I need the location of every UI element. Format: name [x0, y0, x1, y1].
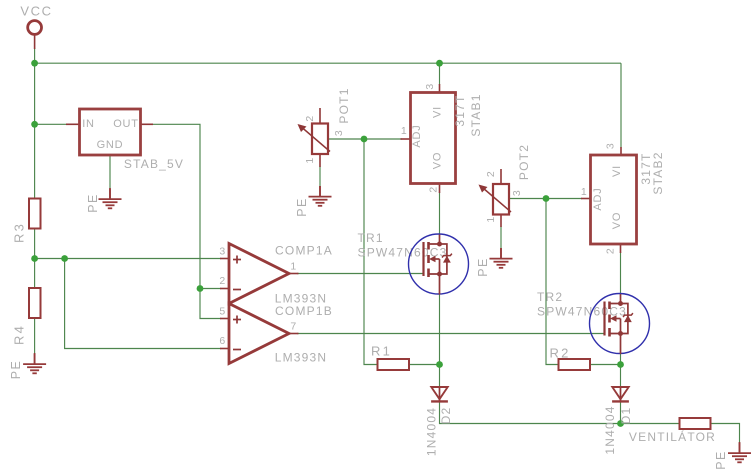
wire TR2 source to node	[620, 353, 622, 365]
regulator STAB2	[581, 143, 665, 254]
svg-text:ADJ: ADJ	[411, 124, 423, 147]
wire divider to pin 3	[35, 258, 221, 260]
wire POT1 node down to R1	[364, 139, 378, 365]
wire POT2 pin1 to ground	[500, 226, 502, 249]
svg-text:1N4004: 1N4004	[603, 405, 617, 454]
pin VCC symbol lead	[34, 35, 36, 50]
wire STAB_5V OUT to opamp inputs	[152, 124, 221, 318]
junction D1 / bottom rail	[617, 420, 624, 427]
regulator STAB1	[401, 83, 483, 192]
svg-text:D2: D2	[439, 407, 453, 425]
resistor R3	[12, 199, 41, 244]
pin STAB1 VI	[439, 84, 441, 93]
pin COMP1B in+	[220, 318, 229, 320]
svg-text:R2: R2	[549, 346, 570, 361]
op-amp COMP1B	[219, 304, 333, 365]
svg-text:VCC: VCC	[20, 4, 52, 19]
svg-text:LM393N: LM393N	[275, 351, 328, 365]
pin R4 ground lead	[34, 353, 36, 364]
svg-text:3: 3	[605, 143, 617, 149]
resistor R4	[12, 288, 41, 345]
svg-text:7: 7	[290, 321, 296, 333]
wire STAB_5V GND down	[109, 156, 111, 190]
wire POT1 wiper to STAB1 ADJ	[328, 138, 402, 140]
pin POT1 bottom	[319, 154, 321, 167]
svg-text:3: 3	[511, 190, 523, 196]
pin STAB1 VO	[439, 184, 441, 194]
svg-text:1: 1	[401, 125, 407, 137]
svg-text:R1: R1	[371, 344, 392, 359]
svg-text:3: 3	[219, 246, 225, 258]
wire POT2 node down to R2	[546, 199, 559, 365]
wire STAB1 VO to TR1 drain	[439, 192, 441, 236]
svg-text:TR2: TR2	[537, 290, 563, 304]
ground PE (POT2)	[490, 248, 513, 268]
svg-text:PE: PE	[86, 193, 100, 212]
svg-text:317T: 317T	[453, 94, 467, 126]
wire COMP1B out to TR2 gate	[297, 333, 605, 335]
ground PE (R4)	[23, 354, 46, 374]
resistor R1	[371, 344, 409, 371]
potentiometer POT1	[298, 87, 352, 163]
svg-text:1: 1	[581, 186, 587, 198]
wire STAB2 VO to TR2 drain	[620, 252, 622, 294]
pin COMP1A out	[289, 273, 299, 275]
supply VCC	[20, 4, 52, 35]
svg-text:VO: VO	[432, 152, 444, 170]
svg-text:2: 2	[485, 171, 497, 177]
svg-text:PE: PE	[9, 360, 23, 379]
wire branch to pin 2	[200, 288, 221, 290]
svg-text:3: 3	[424, 83, 436, 89]
wire R4 to ground	[34, 319, 36, 355]
wire bus drop to STAB2 VI	[620, 63, 622, 148]
svg-text:COMP1A: COMP1A	[275, 244, 333, 258]
svg-text:R4: R4	[12, 324, 27, 345]
pin VENTILATOR ground lead	[739, 442, 741, 453]
junction POT2 wiper node	[543, 195, 550, 202]
MAIN WIRES	[35, 48, 740, 443]
svg-text:2: 2	[219, 275, 225, 287]
wire R2 to TR2 source node	[590, 364, 621, 366]
svg-text:R3: R3	[12, 222, 27, 243]
svg-text:2: 2	[304, 115, 316, 121]
junction divider rail	[31, 255, 38, 262]
wire divider to pin 6	[65, 259, 221, 349]
wire D2 to bottom rail	[440, 402, 621, 424]
wire COMP1A out to TR1 gate	[297, 273, 424, 275]
pin COMP1B in-	[220, 348, 229, 350]
svg-text:VENTILÁTOR: VENTILÁTOR	[629, 429, 716, 444]
pin POT1 ground lead	[319, 186, 321, 196]
svg-text:COMP1B: COMP1B	[275, 304, 333, 318]
pin STAB2 VO	[620, 244, 622, 253]
svg-text:1N4004: 1N4004	[425, 407, 439, 456]
svg-text:ADJ: ADJ	[592, 187, 604, 210]
junction TR2 source / R2 / D1	[617, 361, 624, 368]
regulator STAB_5V	[80, 109, 185, 171]
junction bus / STAB1 VI	[436, 60, 443, 67]
junction 5V net / pin2	[197, 285, 204, 292]
wire R3 to R4	[34, 229, 36, 289]
wire VCC rail vertical	[34, 48, 36, 199]
svg-text:PE: PE	[295, 197, 309, 216]
svg-text:PE: PE	[476, 257, 490, 276]
wire node to D2	[439, 365, 441, 388]
wire POT2 wiper to STAB2 ADJ	[509, 198, 582, 200]
svg-text:1: 1	[290, 261, 296, 273]
pin STAB2 ADJ	[581, 198, 591, 200]
junction divider / pin6 branch	[61, 255, 68, 262]
resistor R2	[549, 346, 590, 371]
svg-text:STAB_5V: STAB_5V	[124, 157, 184, 171]
pin POT2 ground lead	[500, 248, 502, 258]
svg-text:VO: VO	[611, 212, 623, 230]
wire POT1 pin1 to ground	[319, 166, 321, 187]
junction TR1 source / R1 / D2	[436, 361, 443, 368]
svg-text:POT2: POT2	[517, 144, 531, 180]
diode D1	[603, 386, 633, 455]
pin STAB_5V GND	[109, 188, 111, 199]
svg-text:IN: IN	[82, 118, 95, 130]
svg-text:GND: GND	[97, 139, 124, 151]
wire bus junction to STAB1 VI	[439, 63, 441, 85]
wire D1 to bottom rail	[620, 402, 622, 424]
op-amp COMP1A	[219, 244, 333, 306]
svg-text:PE: PE	[714, 450, 728, 469]
svg-text:STAB2: STAB2	[651, 151, 665, 194]
junction POT1 wiper node	[361, 136, 368, 143]
pin COMP1A in+	[220, 258, 229, 260]
diode D2	[425, 386, 454, 456]
wire to STAB_5V IN	[35, 123, 68, 125]
junction rail / STAB_5V IN	[31, 121, 38, 128]
svg-text:3: 3	[333, 130, 345, 136]
svg-text:5: 5	[219, 306, 225, 318]
pin COMP1B out	[289, 333, 299, 335]
svg-text:POT1: POT1	[337, 87, 351, 123]
svg-text:D1: D1	[619, 407, 633, 425]
svg-text:STAB1: STAB1	[469, 93, 483, 136]
wire R1 to TR1 source node	[409, 364, 440, 366]
svg-text:6: 6	[219, 335, 225, 347]
wire VENTILATOR to ground	[711, 424, 740, 444]
pin POT1 top	[319, 108, 321, 124]
svg-text:1: 1	[304, 157, 316, 163]
resistor VENTILATOR	[629, 418, 716, 444]
pin STAB_5V IN	[66, 123, 80, 125]
wire rail to VENTILATOR	[621, 423, 680, 425]
potentiometer POT2	[479, 144, 532, 223]
pin STAB1 ADJ	[401, 138, 411, 140]
wire TR1 source to node	[439, 294, 441, 365]
wire node to D1	[620, 365, 622, 388]
svg-text:VI: VI	[432, 106, 444, 118]
svg-text:OUT: OUT	[113, 118, 139, 130]
svg-text:SPW47N60C3: SPW47N60C3	[537, 305, 627, 319]
junction VCC rail / bus	[31, 60, 38, 67]
pin POT2 top	[500, 169, 502, 184]
pin STAB_5V OUT	[141, 123, 154, 125]
ground PE (VENTILATOR)	[728, 443, 751, 463]
pin STAB2 VI	[620, 147, 622, 155]
ground PE (POT1)	[309, 186, 332, 206]
svg-text:1: 1	[485, 216, 497, 222]
transistor TR2	[537, 290, 650, 354]
wire VCC bus horizontal	[35, 62, 621, 64]
svg-text:TR1: TR1	[358, 231, 384, 245]
pin POT2 bottom	[500, 214, 502, 227]
svg-text:2: 2	[428, 186, 440, 192]
pin COMP1A in-	[220, 288, 229, 290]
ground PE (STAB_5V)	[99, 189, 122, 209]
svg-text:2: 2	[605, 248, 617, 254]
transistor TR1	[358, 231, 469, 295]
svg-text:VI: VI	[611, 165, 623, 177]
